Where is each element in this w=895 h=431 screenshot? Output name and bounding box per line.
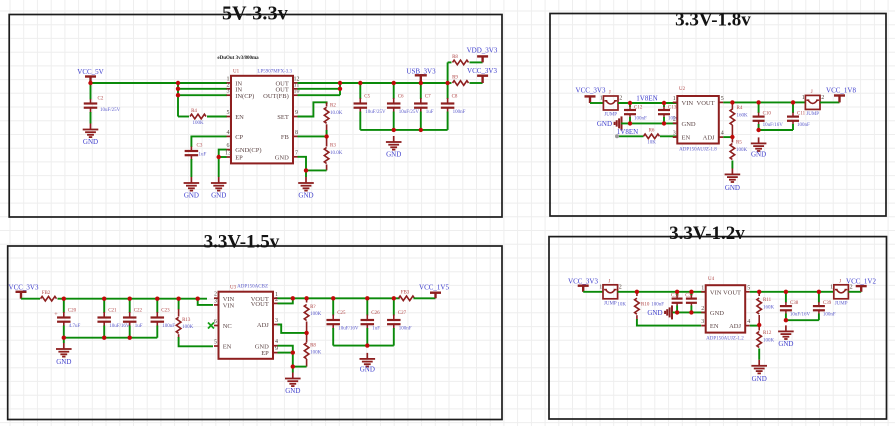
- svg-text:2: 2: [619, 96, 622, 102]
- svg-text:2: 2: [673, 117, 676, 123]
- svg-text:FB: FB: [281, 134, 290, 141]
- svg-text:ADP150ACBZ: ADP150ACBZ: [237, 285, 268, 290]
- svg-text:GND: GND: [725, 184, 740, 192]
- svg-text:C36: C36: [671, 294, 680, 299]
- svg-text:10uF/16V: 10uF/16V: [763, 123, 784, 128]
- svg-text:GND(CP): GND(CP): [235, 147, 261, 154]
- svg-text:J: J: [811, 90, 813, 95]
- svg-text:C27: C27: [398, 311, 407, 316]
- svg-text:VCC_1V8: VCC_1V8: [826, 87, 856, 95]
- svg-text:100K: 100K: [182, 325, 194, 330]
- svg-text:3.3V-1.8v: 3.3V-1.8v: [675, 10, 751, 31]
- svg-text:GND: GND: [360, 366, 375, 374]
- svg-text:1: 1: [599, 284, 602, 290]
- svg-text:1: 1: [830, 284, 833, 290]
- svg-text:4: 4: [275, 339, 278, 345]
- svg-text:VIN: VIN: [682, 100, 694, 107]
- svg-text:4: 4: [227, 130, 230, 136]
- svg-text:1: 1: [802, 95, 805, 101]
- svg-text:1uF: 1uF: [372, 327, 380, 332]
- svg-text:IN(CP): IN(CP): [235, 93, 254, 100]
- svg-text:1: 1: [600, 96, 603, 102]
- svg-text:LP5907MFX-3.3: LP5907MFX-3.3: [257, 70, 292, 75]
- svg-text:U2: U2: [679, 87, 686, 92]
- svg-text:VCC_1V2: VCC_1V2: [846, 277, 876, 285]
- svg-text:100nF: 100nF: [162, 324, 175, 329]
- svg-text:10K: 10K: [647, 141, 656, 146]
- svg-text:2: 2: [821, 95, 824, 101]
- svg-text:EP: EP: [261, 350, 269, 357]
- svg-text:JUMP: JUMP: [835, 301, 848, 306]
- svg-text:C6: C6: [398, 95, 404, 100]
- svg-text:4: 4: [747, 319, 750, 325]
- svg-text:R11: R11: [763, 298, 772, 303]
- svg-text:5V-3.3v: 5V-3.3v: [222, 3, 288, 25]
- svg-text:1V8EN: 1V8EN: [617, 128, 638, 136]
- svg-text:1: 1: [673, 96, 676, 102]
- svg-text:8: 8: [295, 130, 298, 136]
- svg-text:R2: R2: [330, 104, 336, 109]
- svg-text:R13: R13: [182, 318, 191, 323]
- svg-text:C21: C21: [108, 309, 117, 314]
- svg-text:VCC_3V3: VCC_3V3: [9, 284, 39, 292]
- svg-text:5: 5: [721, 96, 724, 102]
- svg-text:J: J: [839, 279, 841, 284]
- svg-text:VCC_5V: VCC_5V: [77, 68, 103, 76]
- svg-text:ADP150AUJZ-1.2: ADP150AUJZ-1.2: [706, 337, 744, 342]
- svg-text:JUMP: JUMP: [806, 112, 819, 117]
- svg-text:VOUT: VOUT: [697, 100, 715, 107]
- svg-text:100nF: 100nF: [399, 327, 412, 332]
- svg-text:6: 6: [214, 319, 217, 325]
- svg-text:EN: EN: [235, 114, 244, 121]
- svg-text:C39: C39: [823, 301, 832, 306]
- svg-text:JUMP: JUMP: [604, 113, 617, 118]
- svg-text:R?: R?: [310, 305, 316, 310]
- svg-text:3.3V-1.5v: 3.3V-1.5v: [204, 232, 280, 253]
- svg-text:10K: 10K: [617, 303, 626, 308]
- svg-text:5: 5: [214, 340, 217, 346]
- svg-text:SET: SET: [277, 114, 289, 121]
- svg-text:10uF/25V: 10uF/25V: [100, 108, 121, 113]
- svg-text:R4: R4: [191, 109, 197, 114]
- svg-text:GND: GND: [83, 138, 98, 146]
- svg-text:OUT(FB): OUT(FB): [263, 93, 289, 100]
- svg-text:VCC_3V3: VCC_3V3: [467, 67, 497, 75]
- svg-text:C11: C11: [797, 112, 806, 117]
- svg-text:100nF: 100nF: [634, 117, 647, 122]
- svg-text:13: 13: [225, 151, 231, 157]
- svg-text:EP: EP: [235, 155, 243, 162]
- svg-text:VIN: VIN: [710, 289, 722, 296]
- svg-text:GND: GND: [211, 192, 226, 200]
- svg-text:VDD_3V3: VDD_3V3: [467, 47, 498, 55]
- svg-text:U4: U4: [708, 277, 715, 282]
- svg-text:GND: GND: [778, 340, 793, 348]
- svg-text:2: 2: [619, 284, 622, 290]
- svg-text:1uF: 1uF: [426, 110, 434, 115]
- svg-text:5: 5: [227, 110, 230, 116]
- svg-text:R6: R6: [649, 129, 655, 134]
- svg-text:U3: U3: [230, 286, 237, 291]
- svg-text:1V8EN: 1V8EN: [636, 95, 657, 103]
- svg-text:100K: 100K: [310, 350, 322, 355]
- svg-text:FB3: FB3: [401, 291, 410, 296]
- svg-text:100nF: 100nF: [823, 313, 836, 318]
- svg-text:3.3V-1.2v: 3.3V-1.2v: [669, 223, 745, 244]
- svg-text:C13: C13: [668, 106, 677, 111]
- svg-text:3: 3: [673, 131, 676, 137]
- svg-text:ADJ: ADJ: [703, 135, 715, 142]
- svg-text:1: 1: [701, 285, 704, 291]
- svg-text:C25: C25: [337, 311, 346, 316]
- svg-text:2: 2: [227, 82, 230, 88]
- svg-text:J: J: [609, 91, 611, 96]
- svg-text:GND: GND: [386, 151, 401, 159]
- svg-text:VIN: VIN: [223, 303, 235, 310]
- svg-text:ADJ: ADJ: [729, 323, 741, 330]
- svg-text:10uF/16V: 10uF/16V: [790, 313, 811, 318]
- svg-text:GND: GND: [184, 192, 199, 200]
- svg-text:C2: C2: [98, 97, 104, 102]
- svg-text:100nF: 100nF: [797, 123, 810, 128]
- svg-text:VOUT: VOUT: [723, 289, 741, 296]
- svg-text:R5: R5: [736, 141, 742, 146]
- svg-text:10uF/16V: 10uF/16V: [338, 327, 359, 332]
- svg-text:R12: R12: [763, 331, 772, 336]
- svg-text:C5: C5: [364, 95, 370, 100]
- svg-text:R9: R9: [452, 76, 458, 81]
- svg-text:CP: CP: [235, 134, 243, 141]
- svg-text:GND: GND: [285, 387, 300, 395]
- svg-text:eDuOut 3v3/800ma: eDuOut 3v3/800ma: [217, 56, 259, 61]
- svg-text:100nF: 100nF: [453, 110, 466, 115]
- svg-text:+: +: [54, 311, 58, 318]
- svg-text:R8: R8: [452, 55, 458, 60]
- svg-text:100K: 100K: [736, 148, 748, 153]
- svg-text:10uF/25V: 10uF/25V: [399, 110, 420, 115]
- svg-text:U1: U1: [233, 70, 240, 75]
- svg-text:2: 2: [214, 292, 217, 298]
- svg-text:C12: C12: [634, 106, 643, 111]
- svg-text:EN: EN: [682, 135, 691, 142]
- svg-text:R4: R4: [737, 106, 743, 111]
- svg-text:VCC_3V3: VCC_3V3: [576, 87, 606, 95]
- svg-text:FB2: FB2: [42, 291, 51, 296]
- svg-text:3: 3: [214, 298, 217, 304]
- svg-text:GND: GND: [710, 310, 724, 317]
- svg-text:1uF: 1uF: [135, 324, 143, 329]
- svg-text:160K: 160K: [763, 306, 775, 311]
- svg-text:VCC_1V5: VCC_1V5: [419, 284, 449, 292]
- svg-text:GND: GND: [751, 151, 766, 159]
- svg-text:ADP150AUJZ-1.8: ADP150AUJZ-1.8: [679, 148, 717, 153]
- svg-text:6: 6: [227, 143, 230, 149]
- svg-text:C38: C38: [790, 301, 799, 306]
- svg-text:GND: GND: [647, 309, 662, 317]
- svg-text:GND: GND: [597, 120, 612, 128]
- svg-text:9: 9: [295, 110, 298, 116]
- svg-text:100K: 100K: [763, 339, 775, 344]
- svg-text:EN: EN: [223, 344, 232, 351]
- svg-text:J: J: [608, 279, 610, 284]
- svg-text:10.0K: 10.0K: [330, 111, 343, 116]
- svg-text:5: 5: [747, 285, 750, 291]
- svg-text:ADJ: ADJ: [257, 322, 269, 329]
- svg-text:10uF/16V: 10uF/16V: [109, 324, 130, 329]
- svg-text:R8: R8: [310, 343, 316, 348]
- svg-text:GND: GND: [56, 358, 71, 366]
- svg-text:C22: C22: [134, 309, 143, 314]
- svg-text:GND: GND: [682, 121, 696, 128]
- svg-text:2: 2: [701, 306, 704, 312]
- svg-text:10uF/25V: 10uF/25V: [365, 110, 386, 115]
- svg-text:EN: EN: [710, 323, 719, 330]
- svg-text:C8: C8: [452, 95, 458, 100]
- svg-text:NC: NC: [223, 323, 232, 330]
- svg-text:C10: C10: [763, 112, 772, 117]
- svg-text:JUMP: JUMP: [604, 301, 617, 306]
- svg-text:4.7uF: 4.7uF: [69, 324, 81, 329]
- svg-text:VCC_3V3: VCC_3V3: [568, 278, 598, 286]
- svg-text:1uF: 1uF: [199, 153, 207, 158]
- svg-text:3: 3: [275, 318, 278, 324]
- svg-text:160K: 160K: [737, 114, 749, 119]
- svg-text:C37: C37: [685, 294, 694, 299]
- svg-text:VOUT: VOUT: [251, 301, 269, 308]
- svg-text:R10: R10: [641, 303, 650, 308]
- svg-text:100K: 100K: [192, 121, 204, 126]
- svg-text:3: 3: [227, 89, 230, 95]
- svg-text:R3: R3: [330, 144, 336, 149]
- svg-text:C23: C23: [161, 309, 170, 314]
- svg-text:3: 3: [701, 319, 704, 325]
- svg-text:7: 7: [295, 150, 298, 156]
- svg-text:100nF: 100nF: [651, 303, 664, 308]
- svg-text:GND: GND: [298, 192, 313, 200]
- svg-text:C26: C26: [371, 311, 380, 316]
- svg-text:C20: C20: [68, 309, 77, 314]
- svg-text:10.0K: 10.0K: [330, 151, 343, 156]
- svg-text:GND: GND: [275, 154, 289, 161]
- svg-text:GND: GND: [752, 375, 767, 383]
- svg-text:9: 9: [275, 346, 278, 352]
- svg-text:C3: C3: [197, 144, 203, 149]
- svg-text:100K: 100K: [310, 312, 322, 317]
- svg-text:C7: C7: [425, 95, 431, 100]
- svg-text:4: 4: [721, 131, 724, 137]
